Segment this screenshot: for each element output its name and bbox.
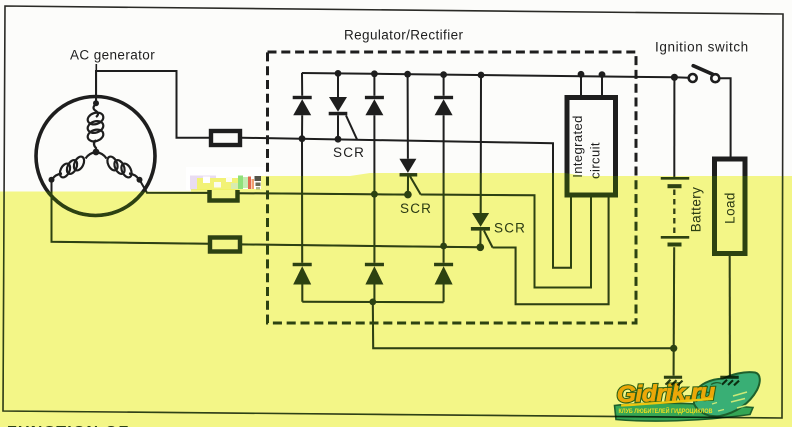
junction: phase 3 wire / SCR3 cathode bbox=[477, 244, 485, 252]
wire: R3 right to SCR3 cathode bbox=[242, 244, 480, 247]
label leader bbox=[95, 64, 97, 103]
crocodile mouth and eye bbox=[694, 392, 714, 402]
generator coil (top phase) bbox=[86, 104, 105, 151]
junction: phase 2 wire / SCR2 cathode bbox=[404, 191, 412, 199]
wire: IC top pins bbox=[581, 74, 602, 95]
node: generator phase 1 terminal bbox=[93, 100, 99, 106]
SCR2 gate lead bbox=[410, 176, 421, 194]
wire: R1 to wire1 into box bbox=[242, 138, 571, 268]
node: generator wye center bbox=[93, 149, 100, 156]
junction: bus / IC pin 2 bbox=[599, 71, 606, 78]
integrated circuit box U1 bbox=[567, 98, 616, 196]
wire: battery top bbox=[673, 77, 675, 177]
column A vertical bbox=[301, 73, 303, 302]
resistor R1 bbox=[211, 131, 240, 145]
junction: bus / battery positive bbox=[671, 74, 678, 81]
junction: bus / diode D3 bbox=[440, 71, 447, 78]
SCR1 gate lead bbox=[346, 115, 357, 139]
column C vertical bbox=[373, 74, 375, 302]
diode E bottom bbox=[434, 263, 453, 285]
logo banner ribbon bbox=[615, 403, 754, 421]
diode C top bbox=[365, 96, 384, 116]
column D SCR2 vertical bbox=[407, 74, 409, 194]
SCR1 bbox=[329, 97, 348, 115]
diode A top bbox=[293, 96, 312, 116]
battery symbol bbox=[661, 178, 689, 246]
junction: bus / IC pin 1 bbox=[578, 71, 585, 78]
wire: top bus bbox=[302, 73, 689, 78]
junction: phase 1 wire / SCR1 cathode bbox=[335, 136, 342, 143]
diode E top bbox=[434, 96, 453, 116]
SCR3 bbox=[471, 213, 490, 231]
junction: ground return / battery negative bbox=[670, 345, 677, 352]
wire: load bottom to ground bbox=[729, 256, 731, 376]
crocodile highlight strokes bbox=[731, 392, 747, 408]
ground (battery) bbox=[664, 377, 683, 385]
ignition switch bbox=[689, 66, 720, 83]
junction: phase 1 wire / column A bbox=[299, 135, 306, 142]
junction: bus / SCR1 anode bbox=[335, 70, 342, 77]
junction: phase 3 wire / column E bbox=[440, 243, 447, 250]
junction: negative bus center tap bbox=[369, 299, 376, 306]
generator coil (right phase) bbox=[96, 152, 140, 180]
column E vertical bbox=[443, 75, 445, 303]
wire: battery bottom to ground node bbox=[673, 247, 676, 348]
generator coil (left phase) bbox=[52, 152, 97, 180]
regulator/rectifier dashed box bbox=[268, 52, 637, 323]
load box bbox=[715, 159, 746, 254]
SCR3 gate lead bbox=[484, 231, 493, 248]
wire: generator top lead up and over to R1 bbox=[96, 71, 209, 138]
logo text bbox=[616, 378, 715, 407]
wire: R2 right to SCR2 cathode bbox=[240, 193, 408, 194]
wire: SCR3 gate run to IC bbox=[493, 197, 609, 304]
logo crocodile bbox=[694, 372, 760, 416]
SCR2 bbox=[399, 159, 417, 177]
junction: bus / diode D2 bbox=[371, 70, 378, 77]
node: generator phase 2 terminal bbox=[137, 177, 143, 183]
resistor R3 bbox=[210, 238, 240, 252]
wire: SCR2 gate run to IC bbox=[421, 195, 591, 288]
wire: generator right phase to R2 bbox=[140, 180, 208, 193]
diode A bottom bbox=[293, 263, 312, 285]
bottom diode bus bbox=[302, 301, 443, 303]
column B SCR1 vertical bbox=[337, 73, 339, 139]
column F SCR3 vertical bbox=[479, 75, 482, 247]
junction: phase 2 wire / column C bbox=[371, 191, 378, 198]
node: generator phase 3 terminal bbox=[49, 177, 55, 183]
wire: generator left phase down and right to R3 bbox=[52, 180, 209, 244]
AC generator circle bbox=[36, 97, 155, 216]
scan artifact white patch bbox=[186, 167, 265, 190]
junction: bus / SCR3 anode bbox=[478, 72, 485, 79]
resistor R2 bbox=[210, 188, 238, 201]
svg-text:КЛУБ ЛЮБИТЕЛЕЙ ГИДРОЦИКЛОВ: КЛУБ ЛЮБИТЕЛЕЙ ГИДРОЦИКЛОВ bbox=[619, 407, 713, 415]
diode C bottom bbox=[365, 263, 384, 285]
ground (load) bbox=[720, 377, 739, 385]
wire: bottom return bus bbox=[373, 302, 674, 376]
junction: bus / SCR2 anode bbox=[404, 71, 411, 78]
wire: switch to load bbox=[720, 78, 731, 157]
